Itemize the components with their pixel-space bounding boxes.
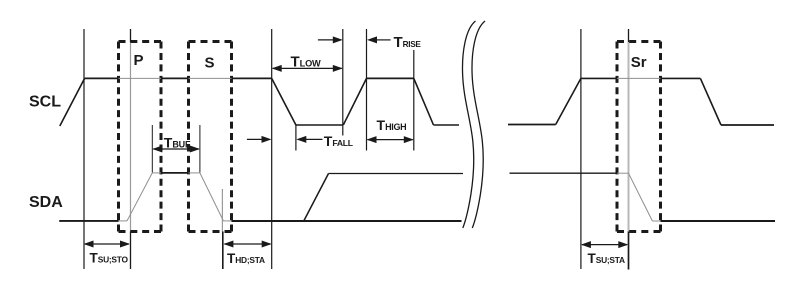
SCL low into break bbox=[434, 124, 460, 126]
SCL high segment 2 bbox=[367, 77, 414, 79]
dimension TFALL right arrow pointing left bbox=[296, 136, 322, 143]
SCL falling edge 1 bbox=[272, 78, 296, 125]
SCL high segment grey in P bbox=[119, 77, 162, 79]
dimension THIGH arrow bbox=[367, 136, 414, 143]
guide line TBUF left bbox=[151, 125, 153, 173]
SCL low after break bbox=[508, 124, 556, 126]
dimension TBUF arrow bbox=[152, 146, 200, 153]
guide line TFALL end bbox=[295, 124, 297, 151]
SDA data rising edge bbox=[304, 174, 329, 221]
guide line TLOW right / TRISE start bbox=[342, 29, 344, 136]
guide line TRISE end / THIGH left bbox=[366, 29, 368, 151]
SDA high grey in S bbox=[189, 172, 200, 174]
break squiggle left curve bbox=[462, 21, 475, 228]
SDA data high line bbox=[329, 173, 464, 175]
guide line tick above P box bbox=[130, 29, 132, 42]
guide line at STOP setup start bbox=[83, 29, 85, 269]
dashed box Sr (repeated start) bbox=[617, 42, 661, 232]
SCL low right end bbox=[721, 124, 774, 126]
SCL rising edge 3 bbox=[556, 78, 581, 124]
svg-text:SCL: SCL bbox=[29, 94, 61, 111]
guide line below S box bbox=[222, 232, 224, 270]
SDA falling edge grey bbox=[200, 173, 224, 221]
SCL falling edge 3 bbox=[700, 78, 721, 125]
SDA high grey in Sr bbox=[617, 172, 629, 174]
guide line tick above Sr box bbox=[628, 29, 630, 42]
SCL high segment grey in S bbox=[189, 77, 232, 79]
SDA high after break bbox=[510, 172, 618, 174]
guide line TBUF right bbox=[199, 125, 201, 173]
SCL falling edge 2 bbox=[414, 78, 434, 125]
SCL rising edge 2 bbox=[343, 78, 366, 124]
SDA low segment left black bbox=[59, 220, 118, 222]
dashed box P (stop condition) bbox=[119, 42, 162, 232]
SDA high black between boxes bbox=[161, 172, 189, 174]
guide line inside Sr box (grey) bbox=[628, 42, 630, 232]
SCL high segment black after Sr bbox=[661, 77, 701, 79]
dimension TRISE right arrow pointing left bbox=[367, 36, 391, 43]
guide line TSU;STA left bbox=[580, 29, 582, 269]
SCL high segment black bbox=[85, 77, 119, 79]
svg-text:S: S bbox=[205, 54, 215, 71]
SDA low black long bbox=[232, 220, 462, 222]
break squiggle right curve bbox=[472, 21, 485, 228]
guide line THD;STA right / TLOW left bbox=[271, 29, 273, 269]
SCL high segment black between boxes bbox=[161, 77, 189, 79]
svg-text:Sr: Sr bbox=[631, 54, 647, 71]
SCL low segment 1 bbox=[296, 124, 344, 126]
SDA high grey in P bbox=[152, 172, 161, 174]
dimension TSU;STO arrow bbox=[84, 241, 131, 248]
SDA rising edge grey bbox=[127, 173, 152, 221]
dimension TRISE left arrow pointing right bbox=[318, 36, 343, 43]
dimension TSU;STA arrow bbox=[581, 241, 628, 248]
svg-text:P: P bbox=[134, 52, 144, 69]
guide line below P box bbox=[130, 232, 132, 270]
SCL high segment black before Sr bbox=[581, 77, 617, 79]
svg-text:SDA: SDA bbox=[29, 194, 63, 211]
SCL high segment black to fall bbox=[232, 77, 272, 79]
SCL high segment grey in Sr bbox=[617, 77, 661, 79]
guide line below Sr box bbox=[628, 232, 630, 270]
guide line inside S box (grey) bbox=[221, 189, 223, 232]
SDA low right end bbox=[661, 220, 776, 222]
dashed box S (start condition) bbox=[189, 42, 232, 232]
SDA low grey in Sr bbox=[652, 220, 660, 222]
dimension TLOW arrow bbox=[272, 65, 343, 72]
SDA low grey in S bbox=[223, 220, 231, 222]
guide line THIGH right bbox=[413, 50, 415, 151]
guide line inside P box (grey) bbox=[130, 42, 132, 232]
SDA low segment grey in P bbox=[119, 220, 128, 222]
SDA falling edge grey in Sr bbox=[629, 173, 653, 221]
SCL rising edge left bbox=[60, 78, 85, 126]
dimension TFALL left arrow pointing right bbox=[247, 136, 272, 143]
dimension THD;STA arrow bbox=[223, 241, 271, 248]
